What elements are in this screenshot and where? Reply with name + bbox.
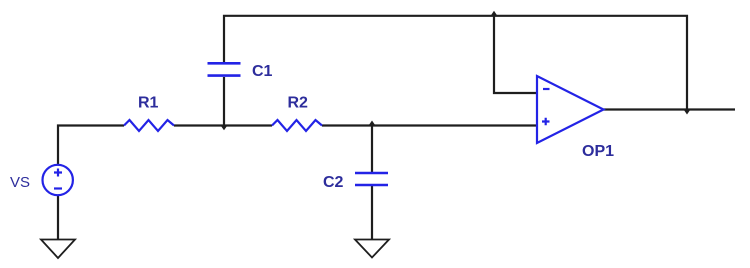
svg-text:C2: C2 xyxy=(323,174,344,191)
svg-text:R1: R1 xyxy=(138,94,159,111)
svg-text:C1: C1 xyxy=(252,63,273,80)
svg-text:OP1: OP1 xyxy=(582,143,614,160)
svg-text:R2: R2 xyxy=(288,94,309,111)
svg-text:VS: VS xyxy=(10,174,30,191)
